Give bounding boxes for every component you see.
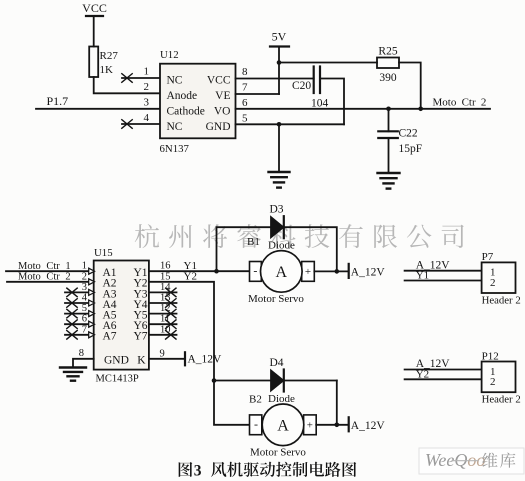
node Moto Ctr 2 (bottom) xyxy=(18,272,71,283)
node A_12V (B1) xyxy=(351,267,386,279)
wire C20 to GND pin 5 xyxy=(320,79,344,125)
node A_12V (pin 9) xyxy=(188,354,223,366)
diode D3 xyxy=(268,204,295,252)
svg-text:GND: GND xyxy=(104,355,129,367)
svg-text:6: 6 xyxy=(242,97,248,109)
svg-text:390: 390 xyxy=(379,72,397,84)
node Y1 label xyxy=(184,260,197,272)
svg-text:2: 2 xyxy=(144,81,150,93)
svg-text:A_12V: A_12V xyxy=(351,267,386,279)
svg-text:5: 5 xyxy=(82,303,87,314)
wire U12 pin 7 (VE) xyxy=(236,93,280,95)
svg-text:15pF: 15pF xyxy=(399,143,423,155)
ground (U15) xyxy=(60,368,86,381)
wire A_12V to P7 pin 1 xyxy=(405,270,482,272)
U12 left pin numbers 1 2 3 4 xyxy=(144,66,150,125)
svg-text:Y2: Y2 xyxy=(184,271,197,283)
svg-text:NC: NC xyxy=(167,75,183,87)
svg-text:Anode: Anode xyxy=(167,90,198,102)
svg-text:1: 1 xyxy=(82,261,87,272)
svg-text:GND: GND xyxy=(206,121,231,133)
svg-text:Motor Servo: Motor Servo xyxy=(248,293,304,305)
node Moto Ctr 1 xyxy=(18,261,71,272)
svg-text:A: A xyxy=(277,418,289,435)
wire U15 GND pin 8 xyxy=(73,359,94,368)
caption 图3 风机驱动控制电路图 xyxy=(179,462,357,480)
diode D4 xyxy=(268,357,295,405)
svg-text:WeeQoo: WeeQoo xyxy=(425,450,485,470)
svg-text:Diode: Diode xyxy=(268,240,295,252)
node Moto Ctr 2 xyxy=(433,97,487,109)
node A_12V (B2) xyxy=(351,420,386,432)
svg-text:Cathode: Cathode xyxy=(167,106,205,118)
wire R25 to Moto Ctr 2 net xyxy=(399,63,423,112)
svg-text:Y1: Y1 xyxy=(416,270,429,282)
connector P7 Header 2 xyxy=(482,251,521,307)
power VCC symbol xyxy=(82,1,107,47)
wire diode D4 loop xyxy=(214,381,337,425)
U15 pin 9 number xyxy=(160,348,165,359)
wire B1 to A_12V xyxy=(314,264,348,278)
svg-text:P12: P12 xyxy=(482,350,499,362)
node Y2 (P12) xyxy=(416,368,429,380)
wire U15 pin 4 (NC) xyxy=(65,299,95,308)
svg-text:4: 4 xyxy=(82,293,88,304)
U15 pin 8 number xyxy=(79,348,84,359)
svg-text:VCC: VCC xyxy=(82,1,107,15)
svg-text:2: 2 xyxy=(490,376,496,388)
svg-text:+: + xyxy=(305,266,311,278)
power 5V symbol xyxy=(270,30,289,47)
wire Y2 to P12 pin 2 xyxy=(405,378,482,380)
svg-text:8: 8 xyxy=(242,66,248,78)
svg-text:16: 16 xyxy=(160,261,171,272)
node Y2 label xyxy=(184,271,197,283)
svg-text:1K: 1K xyxy=(100,64,114,76)
wire U15 pin 12 Y5 (NC) xyxy=(149,309,177,318)
svg-text:8: 8 xyxy=(79,348,84,359)
svg-text:VO: VO xyxy=(214,106,231,118)
wire diode D3 loop xyxy=(217,227,337,271)
U15 right pin numbers 16-10 xyxy=(160,261,171,336)
ground (under C22) xyxy=(378,173,400,189)
wire R27 to U12 pin 2 xyxy=(94,77,160,93)
watermark 杭州将睿科技有限公司 xyxy=(135,224,464,248)
svg-text:K: K xyxy=(137,355,146,367)
wire U12 pin 6 (VO) Moto Ctr 2 net xyxy=(236,108,491,110)
svg-text:U15: U15 xyxy=(94,247,113,259)
svg-text:A_12V: A_12V xyxy=(351,420,386,432)
svg-text:A7: A7 xyxy=(103,331,117,343)
svg-text:2: 2 xyxy=(82,271,87,282)
wire U15 pin 7 (NC) xyxy=(65,331,95,340)
wire U12 pin 4 (NC) xyxy=(122,120,160,129)
svg-text:R25: R25 xyxy=(378,46,397,58)
svg-text:C22: C22 xyxy=(399,128,418,140)
svg-text:B2: B2 xyxy=(249,394,262,406)
svg-text:5V: 5V xyxy=(272,30,287,44)
svg-text:Moto Ctr 2: Moto Ctr 2 xyxy=(433,97,487,109)
svg-text:P1.7: P1.7 xyxy=(47,94,69,108)
U12 right pin numbers 8 7 6 5 xyxy=(242,66,248,125)
op-coupler U12 6N137 xyxy=(160,49,236,155)
wire U12 pin 1 (NC) xyxy=(122,74,160,83)
svg-text:3: 3 xyxy=(82,282,87,293)
node A_12V (P12) xyxy=(416,358,451,370)
svg-text:Y2: Y2 xyxy=(416,368,429,380)
wire U15 pin 9 K to A_12V xyxy=(149,352,185,365)
wire Moto Ctr 1 to U15 pin 1 xyxy=(6,268,95,274)
wire 5V to U12 pin 8 and pin 7 xyxy=(278,47,280,95)
ic U15 MC1413P xyxy=(94,247,149,385)
wire P1.7 to U12 pin 3 xyxy=(36,108,160,110)
wire Moto Ctr 2 to U15 pin 2 xyxy=(7,279,95,285)
U15 left pin numbers 1-7 xyxy=(82,261,88,336)
capacitor C20 xyxy=(292,67,329,110)
svg-text:P7: P7 xyxy=(482,251,494,263)
resistor R25 xyxy=(377,46,399,85)
svg-text:Header 2: Header 2 xyxy=(482,295,521,307)
svg-text:B1: B1 xyxy=(247,236,260,248)
wire A_12V to P12 pin 1 xyxy=(405,369,482,371)
wire B2 to A_12V xyxy=(316,417,349,431)
svg-text:R27: R27 xyxy=(100,50,119,62)
motor servo B1 xyxy=(247,236,314,305)
svg-text:3: 3 xyxy=(194,463,202,480)
svg-text:Y7: Y7 xyxy=(134,331,148,343)
wire 5V node to R25 xyxy=(279,62,377,64)
wire U15 pin 3 (NC) xyxy=(65,288,95,297)
wire U15 pin 5 (NC) xyxy=(65,309,95,318)
svg-text:U12: U12 xyxy=(160,49,179,61)
svg-text:7: 7 xyxy=(82,324,87,335)
motor servo B2 xyxy=(249,394,316,459)
svg-text:NC: NC xyxy=(167,121,183,133)
svg-text:MC1413P: MC1413P xyxy=(96,374,139,385)
svg-text:D3: D3 xyxy=(269,204,283,216)
svg-text:2: 2 xyxy=(490,277,496,289)
svg-text:1: 1 xyxy=(144,66,150,78)
node A_12V (P7) xyxy=(416,259,451,271)
svg-text:Diode: Diode xyxy=(268,393,295,405)
wire U12 pin 5 (GND) xyxy=(236,122,345,127)
wire U15 pin 10 Y7 (NC) xyxy=(149,331,177,340)
svg-text:-: - xyxy=(253,264,257,278)
node Y1 (P7) xyxy=(416,270,429,282)
junction 5V node xyxy=(277,60,282,65)
svg-text:6N137: 6N137 xyxy=(160,143,190,155)
wire Y1 to P7 pin 2 xyxy=(405,280,482,282)
node P1.7 xyxy=(47,94,69,108)
wire Y1 to motor B1 xyxy=(149,269,250,274)
wire U15 pin 13 Y4 (NC) xyxy=(149,299,177,308)
svg-text:VCC: VCC xyxy=(207,75,231,87)
wire U12 pin 8 (VCC) to C20 xyxy=(236,78,314,80)
wire U15 pin 14 Y3 (NC) xyxy=(149,288,177,297)
svg-text:104: 104 xyxy=(311,98,329,110)
svg-text:A: A xyxy=(276,264,288,281)
wire pin5 junction down to ground xyxy=(278,124,280,172)
logo WeeQoo weiku xyxy=(419,448,524,474)
svg-text:5: 5 xyxy=(242,113,248,125)
wire Y2 down to motor B2 xyxy=(149,282,250,425)
ground (top left) xyxy=(269,172,290,188)
svg-text:3: 3 xyxy=(144,97,150,109)
svg-text:7: 7 xyxy=(242,82,248,94)
svg-text:9: 9 xyxy=(160,348,165,359)
svg-text:Motor Servo: Motor Servo xyxy=(250,447,306,459)
svg-text:D4: D4 xyxy=(269,357,283,369)
capacitor C22 xyxy=(378,107,422,174)
svg-text:+: + xyxy=(307,419,313,431)
svg-text:C20: C20 xyxy=(292,80,311,92)
svg-text:Header 2: Header 2 xyxy=(482,394,521,406)
resistor R27 xyxy=(89,47,118,78)
wire U15 pin 6 (NC) xyxy=(65,320,95,329)
wire U15 pin 11 Y6 (NC) xyxy=(149,320,177,329)
svg-text:A_12V: A_12V xyxy=(188,354,223,366)
connector P12 Header 2 xyxy=(482,350,521,405)
svg-text:6: 6 xyxy=(82,314,87,325)
svg-text:4: 4 xyxy=(144,112,150,124)
svg-text:15: 15 xyxy=(160,271,171,282)
svg-text:VE: VE xyxy=(215,90,230,102)
svg-text:-: - xyxy=(254,417,258,431)
